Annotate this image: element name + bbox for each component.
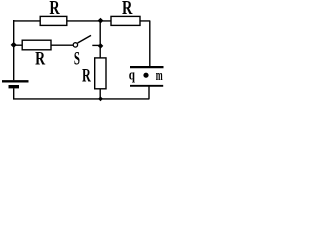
svg-text:R: R (82, 65, 91, 86)
svg-text:m: m (156, 68, 163, 84)
svg-text:R: R (49, 0, 60, 19)
svg-text:S: S (74, 49, 80, 70)
svg-text:R: R (35, 48, 46, 69)
svg-text:R: R (122, 0, 133, 19)
svg-text:q: q (129, 67, 136, 83)
